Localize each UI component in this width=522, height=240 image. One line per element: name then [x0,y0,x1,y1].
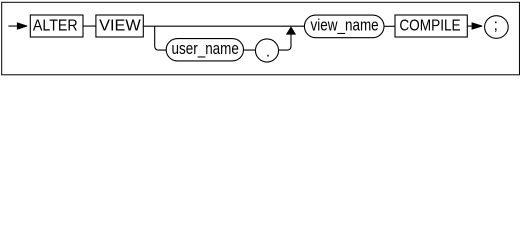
svg-text:view_name: view_name [311,16,379,34]
oval view_name [304,15,384,38]
oval user_name [166,39,243,61]
up arrowhead rejoining main line [286,26,296,34]
wire: branch descent to lower track [155,26,167,50]
wire: user_name to dot [244,49,256,51]
wire: COMPILE to end arrow [467,25,472,27]
circle dot [255,39,278,62]
start arrowhead [17,22,27,30]
circle semicolon [485,16,509,39]
wire: start line [8,25,17,27]
svg-text:;: ; [494,17,498,34]
box COMPILE [395,15,467,37]
svg-text:user_name: user_name [172,40,239,58]
svg-text:ALTER: ALTER [33,17,78,34]
svg-text:COMPILE: COMPILE [399,17,460,34]
wire: main line VIEW to view_name [143,25,304,27]
box VIEW [96,15,143,37]
box ALTER [30,15,83,37]
border frame [2,2,520,75]
wire: dot to ascent [279,34,291,50]
wire: view_name to COMPILE [384,25,395,27]
end arrowhead [472,22,483,30]
svg-text:VIEW: VIEW [99,17,141,34]
wire: ALTER to VIEW [83,25,96,27]
svg-text:.: . [266,43,270,60]
